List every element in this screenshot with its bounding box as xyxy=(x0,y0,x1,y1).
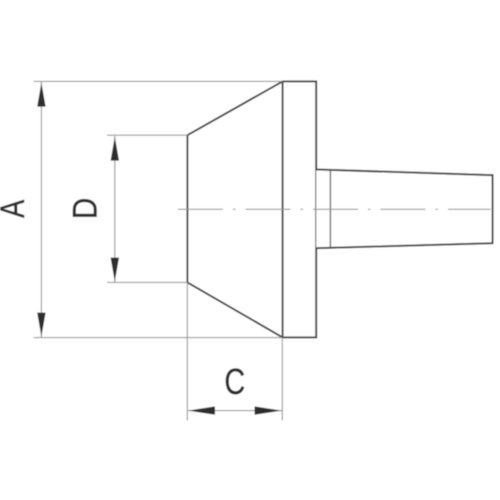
label C xyxy=(224,361,245,402)
svg-text:A: A xyxy=(0,199,32,218)
center line (axis, dash-dot) xyxy=(178,208,491,210)
label D xyxy=(66,198,104,220)
svg-text:D: D xyxy=(66,198,104,220)
cone top slant edge xyxy=(187,81,282,135)
extension line A bottom xyxy=(34,337,283,339)
arrowhead C right xyxy=(255,406,282,414)
extension line C left xyxy=(186,283,188,421)
cone bottom slant edge xyxy=(187,282,282,337)
dimension line A xyxy=(40,82,42,337)
shank gauge line (inner vertical) xyxy=(329,170,331,248)
arrowhead D down xyxy=(111,258,119,282)
extension line A top xyxy=(34,80,283,82)
dimension line C xyxy=(188,410,282,412)
cone small face (left vertical edge) xyxy=(186,135,188,282)
svg-text:C: C xyxy=(224,361,245,402)
extension line D top xyxy=(107,134,187,136)
flange rectangle xyxy=(283,81,317,337)
arrowhead A up xyxy=(37,83,45,107)
arrowhead C left xyxy=(188,406,215,414)
arrowhead A down xyxy=(37,313,45,337)
shank outline (tapered) xyxy=(316,169,492,248)
extension line C right xyxy=(281,338,283,421)
label A xyxy=(0,199,32,218)
extension line D bottom xyxy=(107,281,187,283)
arrowhead D up xyxy=(111,137,119,161)
dimension line D xyxy=(114,136,116,282)
